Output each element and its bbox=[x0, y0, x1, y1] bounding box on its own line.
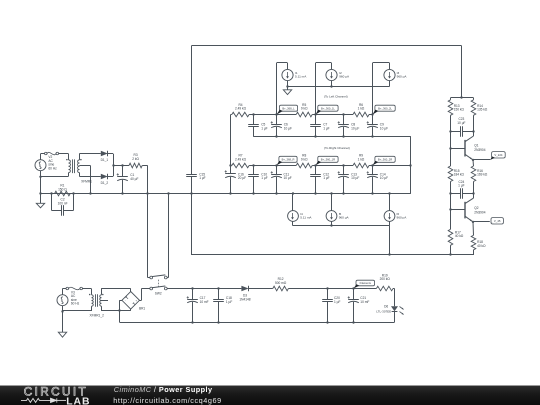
svg-text:150 Ω: 150 Ω bbox=[58, 187, 67, 191]
svg-text:B+_368_R: B+_368_R bbox=[282, 157, 295, 161]
current source I6 bbox=[384, 211, 395, 222]
svg-text:10 µF: 10 µF bbox=[380, 126, 388, 130]
diode D3 bbox=[241, 286, 248, 291]
node flag V_45 bbox=[491, 218, 503, 224]
fuse F2 bbox=[63, 288, 67, 290]
capacitor C6 bbox=[275, 113, 277, 115]
svg-text:10 µF: 10 µF bbox=[457, 121, 465, 125]
resistor R14 bbox=[473, 98, 475, 100]
capacitor C13 bbox=[342, 164, 344, 166]
svg-text:1 kΩ: 1 kΩ bbox=[358, 107, 365, 111]
svg-text:D1_2: D1_2 bbox=[101, 181, 109, 185]
transformer XFMR1 bbox=[68, 154, 70, 160]
svg-text:1 µF: 1 µF bbox=[323, 176, 329, 180]
svg-text:10 mF: 10 mF bbox=[360, 300, 369, 304]
svg-text:B+_360_1R: B+_360_1R bbox=[321, 157, 335, 161]
svg-text:Filaments: Filaments bbox=[360, 281, 372, 285]
wire secondary taps bbox=[101, 289, 103, 295]
svg-text:60 Hz: 60 Hz bbox=[48, 166, 57, 170]
svg-text:LTL-307EE: LTL-307EE bbox=[376, 310, 391, 314]
node flag B+_360_1R bbox=[318, 156, 338, 162]
wire bottom return rail bbox=[120, 322, 395, 324]
transistor Q1 bbox=[450, 131, 452, 148]
resistor R16 bbox=[472, 160, 475, 166]
capacitor C17 bbox=[191, 287, 193, 289]
svg-text:10 µF: 10 µF bbox=[380, 176, 388, 180]
capacitor C10 bbox=[252, 164, 254, 166]
capacitor C16 bbox=[230, 165, 232, 174]
voltage source V3 bbox=[57, 295, 68, 306]
svg-text:(To Left Channel): (To Left Channel) bbox=[324, 95, 348, 99]
svg-text:960 µA: 960 µA bbox=[339, 216, 350, 220]
svg-text:1 kΩ: 1 kΩ bbox=[358, 157, 365, 161]
switch SW2 pole B bbox=[150, 287, 153, 290]
svg-text:XFMR1_2: XFMR1_2 bbox=[90, 313, 105, 317]
resistor R3 bbox=[129, 163, 142, 168]
svg-text:BR1: BR1 bbox=[139, 306, 145, 310]
transistor Q2 bbox=[450, 194, 452, 210]
svg-text:10 µF: 10 µF bbox=[351, 176, 359, 180]
wire left channel rail bbox=[231, 114, 232, 116]
wire filament supply line bbox=[167, 288, 241, 290]
svg-text:60 Hz: 60 Hz bbox=[71, 302, 80, 306]
capacitor C7 bbox=[314, 113, 316, 115]
switch SW2 pole A bbox=[147, 193, 149, 277]
capacitor C9 bbox=[371, 113, 373, 115]
svg-text:5.11 mA: 5.11 mA bbox=[300, 216, 312, 220]
svg-text:100 nF: 100 nF bbox=[58, 201, 68, 205]
wire top rail bbox=[192, 45, 462, 47]
node flag B+_368_R bbox=[279, 156, 297, 162]
current source I5 bbox=[326, 211, 337, 222]
current source I2 bbox=[326, 69, 337, 80]
svg-text:10 mF: 10 mF bbox=[200, 300, 209, 304]
capacitor C8 bbox=[342, 113, 344, 115]
wire I4-I6 bottom rail bbox=[293, 225, 390, 227]
resistor R13 bbox=[450, 98, 452, 100]
capacitor C14 bbox=[371, 164, 373, 166]
ground (current sources) bbox=[287, 87, 289, 90]
svg-text:2.49 kΩ: 2.49 kΩ bbox=[235, 107, 247, 111]
wire I1-I3 bottom rail bbox=[288, 86, 390, 88]
resistor R12 bbox=[273, 286, 289, 291]
svg-text:D6: D6 bbox=[384, 305, 388, 309]
current source I1 bbox=[282, 69, 293, 80]
ground (main) bbox=[39, 192, 41, 194]
wire right channel rail bbox=[231, 165, 232, 167]
capacitor C20 bbox=[326, 287, 328, 289]
svg-text:B+_360_2R: B+_360_2R bbox=[378, 157, 392, 161]
node flag B+_360_2R bbox=[375, 156, 395, 162]
svg-text:1 µF: 1 µF bbox=[261, 126, 267, 130]
svg-text:169 kΩ: 169 kΩ bbox=[477, 173, 488, 177]
capacitor C12 bbox=[314, 164, 316, 166]
ground (bottom) bbox=[62, 311, 64, 332]
svg-text:2 kΩ: 2 kΩ bbox=[132, 157, 139, 161]
svg-text:1 µF: 1 µF bbox=[334, 300, 340, 304]
svg-text:B+_360_2L: B+_360_2L bbox=[378, 106, 392, 110]
resistor R9 bbox=[353, 163, 369, 168]
current source I3 bbox=[384, 69, 395, 80]
svg-text:2N3904: 2N3904 bbox=[474, 148, 485, 152]
node flag B+_360_1L bbox=[318, 105, 338, 111]
diode D1_2 bbox=[101, 174, 108, 179]
LED D6 bbox=[394, 289, 396, 307]
transformer XFMR1_2 bbox=[91, 289, 93, 295]
svg-text:D1_1: D1_1 bbox=[101, 158, 109, 162]
svg-text:960 µA: 960 µA bbox=[397, 75, 408, 79]
svg-text:1 µF: 1 µF bbox=[261, 176, 267, 180]
svg-text:40 kΩ: 40 kΩ bbox=[455, 234, 464, 238]
wire mid rail bbox=[254, 136, 411, 138]
svg-text:1 µF: 1 µF bbox=[226, 300, 232, 304]
svg-text:V_45: V_45 bbox=[494, 219, 501, 223]
svg-text:960 µA: 960 µA bbox=[339, 75, 350, 79]
diode D1_1 bbox=[101, 151, 108, 156]
svg-text:B+_368_L: B+_368_L bbox=[282, 106, 295, 110]
svg-text:5.11 mA: 5.11 mA bbox=[295, 75, 307, 79]
svg-text:20 µF: 20 µF bbox=[238, 176, 246, 180]
svg-text:1 µF: 1 µF bbox=[323, 126, 329, 130]
capacitor C11 bbox=[275, 164, 277, 166]
node flag B+_368_L bbox=[279, 105, 297, 111]
capacitor C1 bbox=[121, 164, 123, 166]
wire bridge connections bbox=[120, 300, 122, 302]
capacitor C5 bbox=[252, 113, 254, 115]
resistor R8 bbox=[296, 163, 312, 168]
resistor R15 bbox=[450, 148, 452, 166]
svg-text:XFMR1: XFMR1 bbox=[81, 180, 92, 184]
svg-text:40 kΩ: 40 kΩ bbox=[477, 244, 486, 248]
svg-text:500 mΩ: 500 mΩ bbox=[275, 281, 287, 285]
capacitor C23 bbox=[451, 131, 461, 133]
node flag B+_360_2L bbox=[375, 105, 395, 111]
svg-text:9 kΩ: 9 kΩ bbox=[301, 107, 308, 111]
capacitor C15 bbox=[191, 46, 193, 175]
svg-text:10 µF: 10 µF bbox=[284, 126, 292, 130]
capacitor C2 bbox=[50, 192, 52, 194]
resistor R19 bbox=[376, 286, 393, 291]
switch SW2 gang link bbox=[158, 280, 160, 287]
wire main rail bbox=[41, 193, 411, 195]
capacitor C18 bbox=[217, 287, 219, 289]
resistor R6 bbox=[353, 112, 369, 117]
svg-text:150 kΩ: 150 kΩ bbox=[454, 108, 465, 112]
resistor R18 bbox=[472, 222, 475, 235]
svg-text:135 kΩ: 135 kΩ bbox=[477, 108, 488, 112]
svg-text:40 µF: 40 µF bbox=[130, 177, 138, 181]
svg-text:LAB: LAB bbox=[66, 396, 90, 405]
node flag V_224 bbox=[492, 152, 506, 158]
resistor R17 bbox=[450, 210, 452, 229]
svg-text:10 µF: 10 µF bbox=[284, 176, 292, 180]
resistor R7 bbox=[232, 163, 249, 168]
svg-text:960 µA: 960 µA bbox=[397, 216, 408, 220]
svg-text:SW2: SW2 bbox=[155, 291, 162, 295]
wire B+ feed column bbox=[230, 115, 232, 166]
svg-text:V_224: V_224 bbox=[494, 153, 503, 157]
fuse F1 bbox=[41, 153, 45, 155]
wire diode junction bbox=[108, 153, 113, 155]
resistor R5 bbox=[296, 112, 312, 117]
svg-text:184 kΩ: 184 kΩ bbox=[454, 173, 465, 177]
svg-text:1N4148: 1N4148 bbox=[239, 297, 250, 301]
svg-text:1 µF: 1 µF bbox=[458, 184, 464, 188]
node flag Filaments bbox=[356, 280, 375, 286]
svg-text:(To Right Channel): (To Right Channel) bbox=[324, 146, 350, 150]
svg-text:2N3904: 2N3904 bbox=[474, 210, 485, 214]
capacitor C24 bbox=[451, 193, 461, 195]
svg-text:1 µF: 1 µF bbox=[199, 176, 205, 180]
current source I4 bbox=[288, 211, 299, 222]
svg-text:-: - bbox=[125, 298, 126, 302]
svg-text:9 kΩ: 9 kΩ bbox=[301, 157, 308, 161]
svg-text:200 kΩ: 200 kΩ bbox=[380, 277, 391, 281]
wire top bar bbox=[451, 97, 474, 99]
svg-text:B+_360_1L: B+_360_1L bbox=[321, 106, 335, 110]
CircuitLab logo bbox=[21, 384, 90, 405]
resistor R4 bbox=[232, 112, 249, 117]
wire outer return rail bbox=[191, 193, 193, 255]
resistor R1 bbox=[55, 191, 71, 196]
svg-text:10 µF: 10 µF bbox=[351, 126, 359, 130]
bridge rectifier BR1 bbox=[122, 292, 140, 310]
capacitor C21 bbox=[352, 287, 354, 289]
svg-text:2.49 kΩ: 2.49 kΩ bbox=[235, 157, 247, 161]
voltage source V2 bbox=[35, 160, 46, 171]
